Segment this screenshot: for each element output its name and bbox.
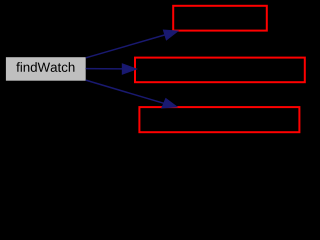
edge arrow 1: findWatch to top red node xyxy=(86,30,178,58)
bottom red node box (empty) xyxy=(139,107,299,132)
node findWatch (gray box) xyxy=(6,57,86,80)
edge arrow 3: findWatch to bottom red node xyxy=(86,80,177,108)
top red node box (empty) xyxy=(173,6,267,31)
middle red node box (empty) xyxy=(135,58,305,83)
edge arrow 2: findWatch to middle red node xyxy=(86,64,137,74)
